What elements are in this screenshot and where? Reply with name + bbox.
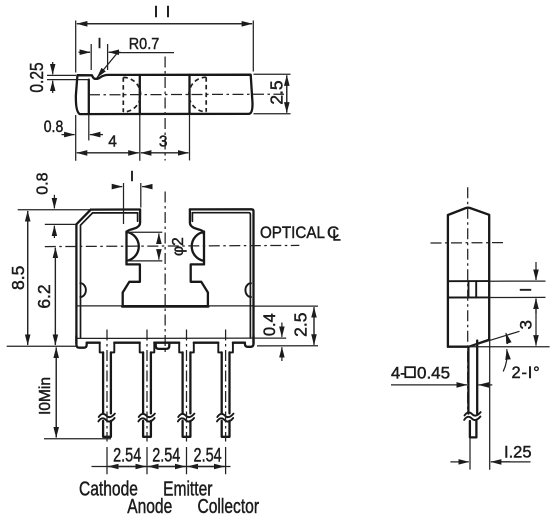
label Collector xyxy=(198,495,260,517)
lead 3 (Emitter) xyxy=(178,330,195,442)
svg-text:φ2: φ2 xyxy=(170,237,187,256)
svg-text:Collector: Collector xyxy=(198,495,260,517)
svg-text:2.5: 2.5 xyxy=(291,313,311,337)
side view body outline xyxy=(448,208,489,347)
front view left tower slot face and hook lip xyxy=(127,210,141,234)
top view vertical centerline xyxy=(164,57,166,161)
lead 2 (Anode) xyxy=(138,330,155,442)
dimension 0.25 (notch depth) xyxy=(27,62,89,93)
svg-text:I: I xyxy=(130,169,134,185)
lead 4 (Collector) xyxy=(217,330,234,442)
svg-text:3: 3 xyxy=(516,320,535,329)
svg-text:8.5: 8.5 xyxy=(8,266,28,290)
svg-text:L: L xyxy=(332,228,341,245)
front view right tower top edge xyxy=(190,209,254,343)
dimension 4-sq0.45 xyxy=(391,363,492,385)
side view parting line upper xyxy=(448,280,489,282)
front view right lens dome xyxy=(192,232,204,261)
side view lead xyxy=(464,341,481,438)
svg-text:0.8: 0.8 xyxy=(34,172,51,194)
top view division line left (lens 1 face) xyxy=(139,75,141,114)
svg-text:2.54: 2.54 xyxy=(194,444,222,465)
front view vertical centerline xyxy=(164,192,166,353)
dimension 8.5 xyxy=(7,211,78,346)
dimension 0.8 (front view step) xyxy=(18,172,90,238)
svg-text:0.45: 0.45 xyxy=(417,363,450,382)
svg-text:0.25: 0.25 xyxy=(27,62,48,92)
front view right inner block xyxy=(191,264,208,304)
front view optical centerline horizontal xyxy=(45,245,299,246)
side view draft angle lines xyxy=(469,331,550,371)
top view horizontal centerline xyxy=(89,93,284,96)
front view left lens dome xyxy=(127,232,139,261)
front view right lens wall xyxy=(203,232,205,265)
svg-text:I: I xyxy=(518,288,535,292)
svg-text:I: I xyxy=(97,36,101,52)
dimension 3 (side view) xyxy=(516,299,536,346)
side view parting line lower xyxy=(448,296,489,298)
svg-text:I.25: I.25 xyxy=(504,444,532,462)
dimension 2.5 (top view) xyxy=(254,74,291,113)
front view left ear bump xyxy=(80,283,86,297)
front view center foot xyxy=(156,343,170,349)
top view end-cap line xyxy=(88,80,90,114)
dimension 0.8 (top view) xyxy=(44,115,103,161)
svg-text:OPTICAL: OPTICAL xyxy=(260,224,325,242)
dimension 10Min xyxy=(37,348,111,439)
dimension 2.5 (front view) xyxy=(255,306,319,345)
label Cathode xyxy=(79,478,138,500)
dimension R0.7 leader xyxy=(97,35,174,77)
front view slot floor xyxy=(77,305,254,308)
front view left inner block xyxy=(123,264,140,304)
dimension 6.2 xyxy=(34,248,55,345)
dimension phi2 xyxy=(127,232,187,261)
svg-text:4: 4 xyxy=(108,134,117,151)
dimension 1 (front view lip width) xyxy=(113,169,153,224)
label 2-1 degrees xyxy=(512,364,541,382)
top view hidden lens circle left xyxy=(123,77,140,112)
dimension 1.25 xyxy=(450,341,531,470)
front view left corner foot xyxy=(76,336,86,348)
front view right corner foot xyxy=(245,336,254,347)
top view body outline xyxy=(76,75,253,114)
svg-text:2.54: 2.54 xyxy=(152,444,180,465)
svg-text:2.54: 2.54 xyxy=(113,444,141,465)
front view outer body left xyxy=(76,210,92,344)
label Emitter xyxy=(163,478,212,500)
top view division line right (lens 2 face) xyxy=(188,75,190,114)
lead 1 (Cathode) xyxy=(98,330,114,442)
svg-text:R0.7: R0.7 xyxy=(129,35,159,53)
dimension 2.54 pitch chain xyxy=(92,444,231,474)
svg-text:I0Min: I0Min xyxy=(37,377,54,415)
label Anode xyxy=(127,495,172,517)
svg-text:3: 3 xyxy=(159,134,168,151)
side view lead section box xyxy=(469,281,477,297)
dimension 0.4 xyxy=(257,313,318,361)
dimension 4 and 3 (top view) xyxy=(77,114,190,161)
svg-text:6.2: 6.2 xyxy=(34,284,54,308)
svg-text:2.5: 2.5 xyxy=(267,80,287,104)
side view optical centerline xyxy=(431,242,505,244)
front view bottom thick edge segments xyxy=(87,342,245,344)
top view hidden lens circle right xyxy=(189,77,206,112)
OPTICAL centerline label xyxy=(260,223,341,244)
side view vertical centerline xyxy=(467,187,469,410)
front view right ear bump xyxy=(245,283,251,297)
front view bottom thin line xyxy=(76,337,286,339)
svg-text:4-: 4- xyxy=(391,364,406,382)
front view left lens wall xyxy=(125,232,127,265)
front view left tower top edge xyxy=(91,210,140,213)
svg-text:II: II xyxy=(154,4,178,21)
dimension 1 (side view) xyxy=(489,262,545,298)
svg-text:0.8: 0.8 xyxy=(44,118,63,136)
svg-text:0.4: 0.4 xyxy=(261,313,279,336)
dimension 11 (top) xyxy=(76,4,254,73)
dimension 1 (notch width) xyxy=(79,36,121,70)
svg-text:2-I°: 2-I° xyxy=(512,364,541,382)
front view right tower slot face and hook lip xyxy=(190,209,204,233)
